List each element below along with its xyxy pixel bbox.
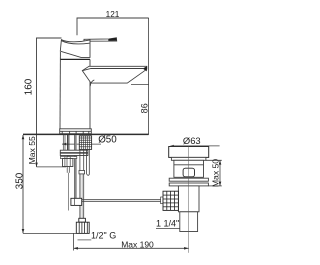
knob inner arc bbox=[62, 41, 90, 44]
svg-text:160: 160 bbox=[23, 78, 34, 95]
svg-text:121: 121 bbox=[106, 10, 120, 19]
svg-text:350: 350 bbox=[15, 172, 26, 189]
base tick 5 bbox=[88, 131, 90, 133]
supply hose A left edge bbox=[79, 150, 81, 219]
base tick 3 bbox=[75, 131, 77, 133]
drain cap washer bbox=[171, 157, 206, 160]
svg-text:Max 55: Max 55 bbox=[27, 136, 37, 164]
supply hose B left edge bbox=[85, 150, 87, 174]
lever dark tip bbox=[108, 38, 116, 41]
knob bottom shadow line bbox=[60, 58, 90, 60]
svg-text:Ø50: Ø50 bbox=[98, 135, 117, 146]
shank nut inner line 2 bbox=[66, 157, 68, 167]
Max 50 bottom extension bbox=[208, 185, 221, 187]
lift rod edge bbox=[74, 135, 76, 198]
1/2 G leader line bbox=[23, 232, 89, 234]
drain washer bar 2 bbox=[169, 183, 208, 186]
Max 50 dimension line bbox=[219, 160, 221, 186]
svg-text:Max 190: Max 190 bbox=[121, 240, 154, 250]
svg-text:Max 50: Max 50 bbox=[211, 159, 221, 187]
column-spout fillet bbox=[90, 80, 94, 86]
drain centerline bbox=[188, 147, 190, 253]
160 / Max55 dimension line bbox=[37, 38, 62, 167]
Max 50 top arrow bbox=[219, 160, 222, 164]
Max 190 left extension bbox=[73, 233, 75, 250]
svg-text:1 1/4": 1 1/4" bbox=[156, 219, 179, 229]
Ø63 leader bbox=[171, 145, 220, 147]
hose crimp collar bbox=[79, 218, 86, 222]
mounting plate lower bbox=[60, 153, 88, 155]
neck junction line bbox=[174, 164, 204, 166]
svg-text:1/2" G: 1/2" G bbox=[91, 231, 116, 241]
Max 50 top extension bbox=[206, 159, 222, 161]
pop-up rod end collar bbox=[161, 197, 163, 204]
350 bottom arrow bbox=[22, 229, 25, 233]
hose A inner line 1 bbox=[80, 174, 82, 218]
shank nut inner line 3 bbox=[69, 157, 71, 167]
lock nut hatched bbox=[79, 136, 91, 150]
86 top extension stub bbox=[131, 84, 149, 86]
spout aerator dark tip bbox=[143, 66, 147, 71]
Max 190 dimension line bbox=[74, 247, 189, 249]
faucet lever bbox=[84, 38, 117, 41]
extension line right / 86 dimension line bbox=[148, 18, 150, 135]
mounting plate bbox=[60, 150, 88, 152]
spout blade bbox=[82, 66, 147, 83]
countertop line bbox=[23, 133, 149, 135]
base tick 4 bbox=[82, 131, 84, 133]
Max 50 bottom arrow bbox=[219, 182, 222, 186]
base ring line bbox=[60, 130, 92, 132]
clamp inner line bbox=[73, 198, 75, 205]
overflow hole bbox=[183, 168, 194, 177]
shank nut washer bbox=[60, 157, 76, 159]
svg-text:86: 86 bbox=[140, 103, 150, 113]
350 top arrow bbox=[22, 135, 25, 139]
threaded shank left lines bbox=[62, 135, 64, 150]
1 1/4 leader bbox=[156, 227, 180, 229]
horizontal pop-up rod bbox=[82, 199, 163, 201]
pop-up joint knurled nut bbox=[163, 191, 178, 210]
threaded rod dark pair bbox=[67, 135, 69, 166]
supply hose A right edge bbox=[83, 150, 85, 219]
Max 190 left arrow bbox=[74, 247, 78, 250]
hose B end curl bbox=[86, 174, 89, 176]
drain washer bar 1 bbox=[169, 178, 208, 181]
drain cap bbox=[169, 147, 209, 158]
Ø50 left arrow bbox=[62, 143, 66, 146]
hose A collar bbox=[79, 171, 85, 174]
350 dimension line bbox=[22, 135, 24, 233]
drain valve body bbox=[178, 186, 199, 212]
drain tailpipe bbox=[180, 212, 198, 232]
base tick 2 bbox=[69, 131, 71, 133]
Max 190 right arrow bbox=[184, 247, 188, 250]
shank nut inner line 1 bbox=[64, 157, 66, 167]
hose end nut 1/2G bbox=[76, 222, 89, 233]
base tick 1 bbox=[61, 131, 63, 133]
faucet base plinth bbox=[60, 129, 92, 134]
hose A inner line 2 bbox=[82, 174, 84, 218]
drain neck body bbox=[174, 160, 204, 177]
Ø63 arrow bbox=[169, 145, 174, 148]
pop-up rod clamp bbox=[71, 198, 82, 205]
small tick under nut bbox=[78, 239, 92, 241]
rod tail bbox=[67, 173, 69, 211]
spout inner top edge bbox=[83, 69, 143, 71]
rod below nut bbox=[66, 167, 68, 173]
faucet body column right edge bbox=[89, 59, 91, 128]
Ø50 right arrow bbox=[87, 143, 91, 146]
faucet body column left edge bbox=[59, 52, 61, 129]
Max 55 bottom extension bbox=[37, 166, 67, 168]
pop-up lift rod bbox=[74, 135, 76, 198]
Ø50 dimension line bbox=[62, 143, 101, 145]
Max 55 bottom arrow bbox=[35, 163, 38, 167]
svg-text:Ø63: Ø63 bbox=[183, 135, 201, 146]
dimension 121 line bbox=[77, 18, 149, 35]
supply hose B right edge bbox=[88, 150, 90, 175]
shank nut bbox=[63, 159, 73, 167]
handle knob bbox=[60, 40, 90, 58]
